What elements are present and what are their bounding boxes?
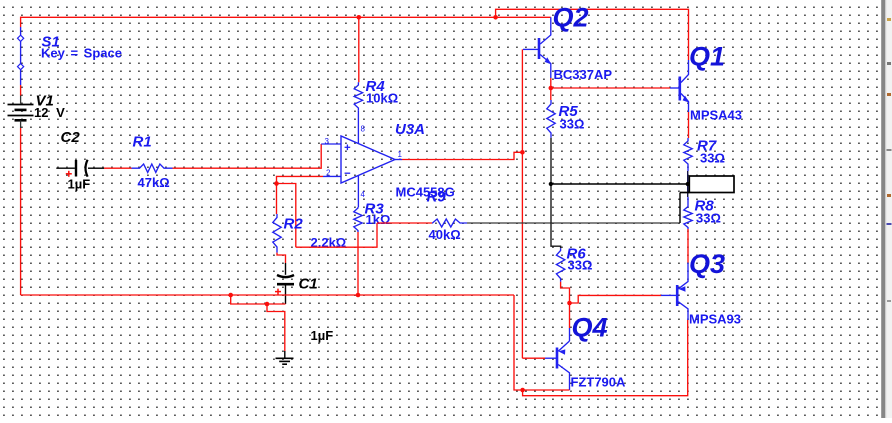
wire Q4 base bbox=[522, 357, 545, 359]
junction top rail split bbox=[493, 15, 498, 20]
wire top rail (V+ to Q2 collector) bbox=[21, 16, 551, 18]
svg-text:2: 2 bbox=[326, 169, 331, 178]
label Q3 bbox=[689, 249, 725, 279]
wire drive column (Q2 base to Q4 base) bbox=[521, 49, 523, 358]
wire R6 to Q4 emitter node bbox=[561, 282, 570, 303]
label S1 bbox=[42, 34, 60, 51]
label R5 bbox=[559, 103, 579, 120]
label R7 bbox=[697, 138, 717, 155]
svg-text:BC337AP: BC337AP bbox=[554, 67, 613, 82]
svg-text:1µF: 1µF bbox=[68, 177, 91, 192]
label Q2 bbox=[553, 3, 589, 33]
label 33Ω (R7) bbox=[700, 151, 725, 166]
label C1 bbox=[299, 276, 318, 293]
output connector box bbox=[680, 176, 734, 193]
wire Q2 emitter to R5 bbox=[550, 78, 552, 100]
resistor R6 bbox=[556, 248, 564, 281]
svg-text:33Ω: 33Ω bbox=[560, 117, 585, 132]
wire R1 to op-amp + input bbox=[173, 144, 322, 168]
resistor R9 40kΩ bbox=[432, 219, 467, 227]
label 2.2kΩ bbox=[311, 235, 347, 250]
transistor Q2 bbox=[523, 17, 552, 78]
label R1 bbox=[133, 134, 152, 151]
label 10kΩ bbox=[366, 91, 398, 106]
wire R8 to Q3 emitter bbox=[687, 229, 689, 263]
scrollbar strip (decorative) bbox=[881, 0, 892, 418]
svg-text:Q3: Q3 bbox=[689, 249, 725, 279]
wire top rail to R4, junction bbox=[357, 15, 362, 82]
wire battery to ground rail (left edge) bbox=[20, 120, 22, 295]
pin number 8 bbox=[361, 125, 366, 134]
wire R2 to C1 bbox=[277, 253, 286, 275]
label 1µF (C2) bbox=[68, 177, 91, 192]
wire R3 to ground rail bbox=[356, 232, 361, 297]
transistor Q3 bbox=[661, 263, 688, 320]
svg-text:1kΩ: 1kΩ bbox=[366, 212, 391, 227]
label R4 bbox=[366, 78, 386, 95]
svg-text:U3A: U3A bbox=[395, 121, 425, 138]
svg-text:33Ω: 33Ω bbox=[568, 258, 593, 273]
label 47kΩ bbox=[138, 175, 170, 190]
svg-text:1µF: 1µF bbox=[311, 328, 334, 343]
wire ground branch to C1 bbox=[231, 295, 286, 304]
junction Q4 emitter node bbox=[567, 301, 572, 306]
label Q4 bbox=[572, 313, 608, 343]
junction output/drive column bbox=[520, 150, 525, 155]
label R6 bbox=[567, 246, 587, 263]
label 33Ω (R5) bbox=[560, 117, 585, 132]
label MPSA93 bbox=[689, 312, 741, 327]
svg-text:MPSA43: MPSA43 bbox=[690, 108, 742, 123]
label FZT790A bbox=[571, 375, 627, 390]
resistor R3 bbox=[354, 207, 362, 232]
wire R7 to R8 through output node bbox=[687, 166, 689, 204]
wire node to Q4 emitter bbox=[569, 303, 571, 341]
svg-text:Q1: Q1 bbox=[689, 42, 725, 72]
ground bbox=[276, 358, 294, 364]
pin number 4 bbox=[361, 190, 366, 199]
junction output node left bbox=[549, 182, 553, 186]
svg-text:3: 3 bbox=[325, 137, 330, 146]
svg-text:R2: R2 bbox=[284, 216, 304, 233]
svg-text:1: 1 bbox=[398, 150, 403, 159]
resistor R8 bbox=[684, 204, 692, 229]
svg-text:MC4558G: MC4558G bbox=[396, 185, 455, 200]
wire C2 to R1 bbox=[104, 167, 132, 169]
transistor Q1 bbox=[670, 60, 689, 112]
svg-text:R1: R1 bbox=[133, 134, 152, 151]
wire upper rail to Q1 collector bbox=[496, 9, 689, 60]
wire left vertical from top rail to switch S1 bbox=[20, 17, 22, 27]
wire Q1 base bbox=[551, 87, 670, 89]
svg-text:C1: C1 bbox=[299, 276, 318, 293]
svg-text:C2: C2 bbox=[61, 129, 81, 146]
wire R9 to output box (feedback) bbox=[467, 193, 680, 224]
label R3 bbox=[365, 201, 385, 218]
wire R4 to op-amp pin 8 bbox=[357, 110, 359, 143]
resistor R1 bbox=[132, 164, 173, 172]
svg-text:MPSA93: MPSA93 bbox=[689, 312, 741, 327]
svg-text:8: 8 bbox=[361, 125, 366, 134]
label BC337AP bbox=[554, 67, 613, 82]
wire 2.2k feedback run to 40k tap bbox=[296, 223, 377, 247]
wire output node to box bbox=[551, 183, 688, 185]
resistor R5 bbox=[547, 100, 555, 138]
svg-text:10kΩ: 10kΩ bbox=[366, 91, 398, 106]
junction output node right bbox=[686, 182, 690, 186]
label MPSA43 bbox=[690, 108, 742, 123]
resistor R4 bbox=[354, 82, 362, 110]
node A junction (inverting node) bbox=[274, 181, 279, 186]
label Key = Space bbox=[41, 46, 122, 61]
wire switch to battery bbox=[20, 85, 22, 104]
svg-text:47kΩ: 47kΩ bbox=[138, 175, 170, 190]
op-amp U3A bbox=[321, 136, 402, 183]
label R2 bbox=[284, 216, 304, 233]
label Q1 bbox=[689, 42, 725, 72]
C2 polarity + bbox=[66, 171, 72, 177]
label 40kΩ bbox=[429, 227, 461, 242]
svg-text:Key = Space: Key = Space bbox=[41, 46, 122, 61]
svg-text:FZT790A: FZT790A bbox=[571, 375, 627, 390]
label C2 bbox=[61, 129, 81, 146]
svg-text:Q4: Q4 bbox=[572, 313, 608, 343]
label 33Ω (R8) bbox=[696, 211, 721, 226]
label 1µF (C1) bbox=[311, 328, 334, 343]
wire op-amp - input to node A bbox=[277, 176, 324, 183]
capacitor C2 bbox=[56, 160, 104, 177]
svg-text:33Ω: 33Ω bbox=[696, 211, 721, 226]
label 12 V bbox=[34, 105, 65, 120]
wire to R9 bbox=[377, 222, 432, 224]
svg-text:R9: R9 bbox=[427, 189, 447, 206]
pin number 2 bbox=[326, 169, 331, 178]
transistor Q4 bbox=[545, 341, 570, 390]
svg-text:12 V: 12 V bbox=[34, 105, 65, 120]
label MC4558G bbox=[396, 185, 455, 200]
wire ground rail bbox=[21, 294, 514, 296]
C1 polarity + bbox=[275, 289, 281, 295]
wire ground rail down to Q4 collector run bbox=[514, 295, 570, 390]
junction Q1 base tap bbox=[549, 86, 554, 91]
svg-text:4: 4 bbox=[361, 190, 366, 199]
resistor R2 bbox=[273, 214, 281, 253]
switch S1 bbox=[17, 27, 23, 85]
wire Q1 emitter to R7 bbox=[688, 112, 690, 138]
junction ground rail / C1 branch bbox=[228, 293, 233, 298]
label U3A bbox=[395, 121, 425, 138]
wire node to Q3 base bbox=[570, 295, 662, 303]
wire branch to ground symbol bbox=[267, 304, 285, 358]
wire R5 to R6 (black) bbox=[551, 138, 561, 249]
label 1kΩ bbox=[366, 212, 391, 227]
svg-text:Q2: Q2 bbox=[553, 3, 589, 33]
resistor R7 bbox=[684, 138, 692, 166]
label 33Ω (R6) bbox=[568, 258, 593, 273]
pin number 3 bbox=[325, 137, 330, 146]
wire bottom rail to Q3 collector bbox=[523, 320, 688, 396]
pin number 1 bbox=[398, 150, 403, 159]
wire op-amp output to drive column bbox=[402, 152, 522, 159]
junction ground branch bbox=[265, 302, 270, 307]
wire op-amp pin 4 to R3 bbox=[357, 175, 359, 207]
wire node A to 2.2k feedback run bbox=[277, 184, 296, 248]
wire node A down to R2 bbox=[276, 184, 278, 215]
svg-text:33Ω: 33Ω bbox=[700, 151, 725, 166]
junction bottom rail bbox=[520, 388, 525, 393]
label R8 bbox=[695, 198, 715, 215]
battery V1 bbox=[8, 105, 34, 121]
label R9 bbox=[427, 189, 447, 206]
capacitor C1 bbox=[277, 275, 294, 304]
svg-text:40kΩ: 40kΩ bbox=[429, 227, 461, 242]
label V1 bbox=[36, 93, 54, 110]
